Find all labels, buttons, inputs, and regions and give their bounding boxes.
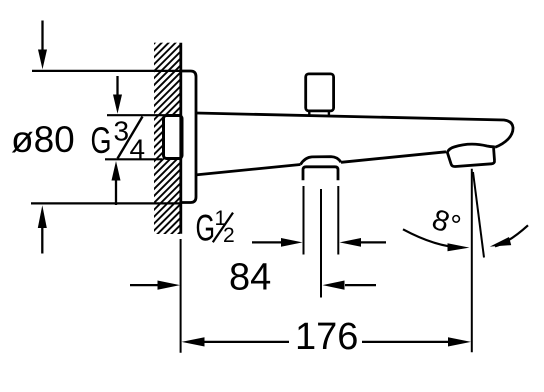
dimension ext line G3/4 top xyxy=(107,114,168,116)
dimension line 176 right segment with arrow xyxy=(362,337,471,346)
outlet vertical ext line xyxy=(471,169,473,352)
wall ext line lower left xyxy=(180,239,182,353)
svg-text:ø80: ø80 xyxy=(11,119,75,160)
dimension ext line ø80 bottom xyxy=(31,202,181,204)
svg-text:4: 4 xyxy=(130,134,146,165)
knob neck left xyxy=(308,111,310,115)
svg-text:G: G xyxy=(196,208,216,249)
dimension ext line ø80 top xyxy=(32,70,181,72)
arrow G3/4 bottom xyxy=(112,161,121,205)
angle arc left with arrow xyxy=(403,229,470,251)
G1/2 hose connector nipple xyxy=(303,167,338,181)
8 degree slant stream line xyxy=(473,172,484,258)
wall face line xyxy=(179,43,182,234)
spout body underside right xyxy=(341,152,446,163)
label G1/2 xyxy=(196,207,235,249)
connector centerline xyxy=(320,189,322,298)
dimension ext line G3/4 bottom xyxy=(105,158,162,160)
connector ext line left xyxy=(303,186,305,255)
dimension line 176 left segment with arrow xyxy=(182,337,290,346)
arrow ø80 bottom xyxy=(38,205,47,253)
svg-text:2: 2 xyxy=(223,224,235,247)
wall plate (escutcheon) xyxy=(181,71,196,203)
spout body underside left xyxy=(196,165,301,175)
knob neck right xyxy=(328,111,330,116)
angle arc right with arrow xyxy=(490,225,528,246)
arrow G3/4 top xyxy=(113,76,122,114)
spout underside bump over hose connector xyxy=(301,157,342,165)
spout outlet nozzle xyxy=(447,144,494,166)
connector ext line right xyxy=(337,186,339,255)
arrow G1/2 right xyxy=(340,238,387,247)
svg-text:176: 176 xyxy=(295,316,358,358)
G3/4 inlet fitting xyxy=(164,116,183,159)
arrow G1/2 left xyxy=(252,238,303,247)
svg-text:84: 84 xyxy=(229,257,271,299)
svg-text:G: G xyxy=(91,120,112,161)
arrow 84 left xyxy=(130,281,180,290)
wall hatch xyxy=(154,43,181,234)
spout body top edge xyxy=(196,113,513,147)
arrow ø80 top xyxy=(38,21,47,70)
label G3/4 xyxy=(91,116,146,165)
arrow 84 right xyxy=(323,281,377,290)
diverter knob xyxy=(306,74,334,111)
